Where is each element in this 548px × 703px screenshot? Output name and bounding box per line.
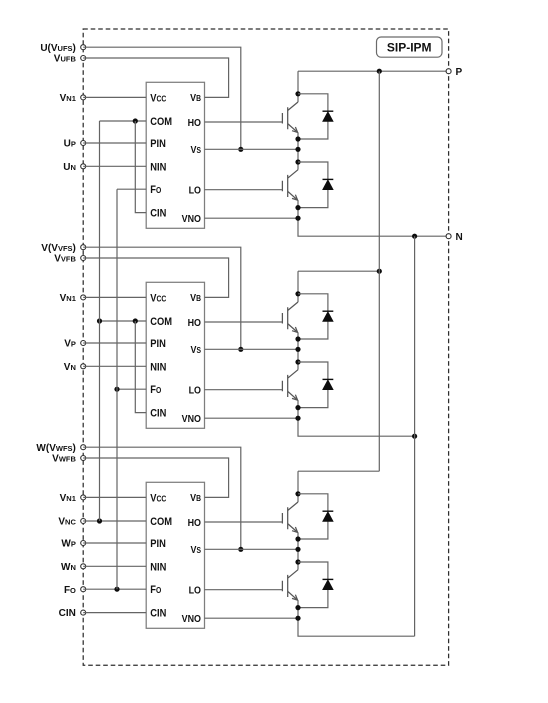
wire phase 2 collector rail to P bus	[298, 270, 379, 272]
svg-text:FO: FO	[150, 185, 161, 197]
junction UFS-VS	[238, 147, 243, 152]
junction P bus phase 2	[377, 269, 382, 274]
U2 pin label PIN	[150, 338, 166, 350]
wire P bus	[378, 71, 380, 471]
U3 pin label VB	[190, 493, 201, 505]
wire VWFB to VB pin	[83, 458, 228, 497]
svg-text:VS: VS	[191, 144, 202, 156]
label VN	[64, 362, 76, 373]
svg-text:FO: FO	[150, 585, 161, 597]
terminal V(VVFS)	[81, 245, 86, 250]
U1 pin label PIN	[150, 138, 166, 150]
U2 pin label FO	[150, 385, 161, 397]
svg-text:N: N	[456, 232, 463, 243]
svg-text:VUFB: VUFB	[54, 54, 77, 65]
terminal VWFB	[81, 456, 86, 461]
label WP	[61, 539, 75, 550]
wire CIN U1 to COM	[135, 121, 146, 213]
wire VN1 to VCC U1	[83, 96, 146, 98]
wire LO U1 to Q2 gate	[205, 189, 283, 191]
wire phase node column 1	[297, 132, 299, 169]
wire WP to PIN U3	[83, 542, 146, 544]
junction FO bus U2	[114, 387, 119, 392]
U3 pin label PIN	[150, 538, 166, 550]
U2 pin label CIN	[150, 408, 166, 420]
label UP	[64, 139, 76, 150]
terminal WN	[81, 564, 86, 569]
junction collector Q5 / D5	[295, 491, 300, 496]
wire P rail	[298, 70, 449, 72]
U2 pin label LO	[189, 385, 202, 397]
junction emitter Q2	[295, 205, 300, 210]
U1 pin label VB	[190, 93, 201, 105]
svg-text:VP: VP	[64, 339, 76, 350]
diode D2 (freewheeling)	[298, 162, 328, 208]
junction collector Q1 / D1	[295, 91, 300, 96]
wire CIN terminal to CIN U3	[83, 612, 146, 614]
wire CIN U2 to COM	[135, 321, 146, 413]
wire N rail	[298, 200, 449, 236]
U1 pin label COM	[150, 116, 172, 128]
label VP	[64, 339, 76, 350]
junction VNO node phase 3	[295, 616, 300, 621]
junction N bus phase 2	[412, 434, 417, 439]
wire collector column Q1	[297, 71, 299, 102]
wire VN to NIN U2	[83, 365, 146, 367]
junction N rail - N bus	[412, 234, 417, 239]
junction VNO node phase 1	[295, 216, 300, 221]
svg-text:VS: VS	[191, 544, 202, 556]
svg-text:VS: VS	[191, 344, 202, 356]
wire LO U2 to Q4 gate	[205, 389, 283, 391]
label VVFB	[54, 254, 76, 265]
wire VS U1 to phase node	[205, 148, 299, 150]
svg-text:VN1: VN1	[60, 493, 76, 504]
U3 pin label LO	[189, 585, 202, 597]
wire phase 3 collector rail to P bus	[298, 470, 379, 472]
junction collector Q3 / D3	[295, 291, 300, 296]
gate driver IC U3	[146, 482, 204, 628]
wire N bus	[414, 236, 416, 636]
junction VS node phase 2	[295, 347, 300, 352]
svg-text:WN: WN	[61, 562, 76, 573]
svg-text:PIN: PIN	[150, 538, 166, 550]
wire phase 2 emitter return to N bus	[298, 400, 415, 436]
wire FO bus	[116, 189, 118, 589]
junction emitter Q1	[295, 136, 300, 141]
U1 pin label VS	[191, 144, 202, 156]
svg-text:CIN: CIN	[59, 608, 76, 619]
label VUFB	[54, 54, 77, 65]
U2 pin label VS	[191, 344, 202, 356]
svg-text:UP: UP	[64, 139, 76, 150]
junction emitter Q4	[295, 405, 300, 410]
terminal UN	[81, 164, 86, 169]
U3 pin label NIN	[150, 562, 166, 574]
terminal UP	[81, 141, 86, 146]
U3 pin label FO	[150, 585, 161, 597]
terminal W(VWFS)	[81, 445, 86, 450]
label V(VVFS)	[41, 243, 76, 254]
junction COM bus VNC	[97, 518, 102, 523]
svg-text:HO: HO	[188, 317, 202, 329]
wire COM U1 to COM bus	[100, 120, 147, 122]
gate driver IC U1	[146, 82, 204, 228]
U3 pin label VCC	[150, 493, 167, 505]
transistor Q1 (IGBT)	[282, 102, 298, 132]
wire WN to NIN U3	[83, 565, 146, 567]
diode D5 (freewheeling)	[298, 494, 328, 539]
svg-text:VNO: VNO	[182, 613, 202, 625]
svg-text:NIN: NIN	[150, 162, 166, 174]
svg-text:VNO: VNO	[182, 213, 202, 225]
terminal VNC	[81, 519, 86, 524]
wire VUFB to VB pin	[83, 58, 228, 97]
diode D3 (freewheeling)	[298, 294, 328, 339]
wire collector column Q3	[297, 271, 299, 302]
diode D1 (freewheeling)	[298, 94, 328, 139]
wire VNC to COM U3	[83, 520, 146, 522]
svg-text:VCC: VCC	[150, 493, 167, 505]
svg-text:PIN: PIN	[150, 338, 166, 350]
svg-text:VN1: VN1	[60, 93, 76, 104]
svg-text:NIN: NIN	[150, 562, 166, 574]
U1 pin label VNO	[182, 213, 202, 225]
terminal FO	[81, 587, 86, 592]
wire phase node column 2	[297, 332, 299, 369]
svg-text:PIN: PIN	[150, 138, 166, 150]
terminal VUFB	[81, 56, 86, 61]
junction COM-CIN U1	[133, 118, 138, 123]
wire collector column Q5	[297, 471, 299, 502]
diode D4 (freewheeling)	[298, 362, 328, 408]
terminal CIN	[81, 610, 86, 615]
svg-text:FO: FO	[64, 585, 76, 596]
wire COM U2 to COM bus	[100, 320, 147, 322]
svg-text:COM: COM	[150, 116, 172, 128]
label VN1	[60, 93, 76, 104]
terminal N	[446, 234, 451, 239]
wire VNO U1 to emitter node	[205, 217, 299, 219]
wire UN to NIN U1	[83, 165, 146, 167]
U1 pin label LO	[189, 185, 202, 197]
svg-text:LO: LO	[189, 385, 202, 397]
svg-text:VB: VB	[190, 93, 201, 105]
svg-text:P: P	[456, 67, 463, 78]
svg-text:HO: HO	[188, 517, 202, 529]
svg-text:VVFB: VVFB	[54, 254, 76, 265]
label VNC	[58, 517, 76, 528]
label UN	[63, 162, 76, 173]
junction collector Q2 / D2	[295, 159, 300, 164]
junction VS node phase 1	[295, 147, 300, 152]
svg-text:FO: FO	[150, 385, 161, 397]
terminal VN	[81, 364, 86, 369]
U3 pin label VNO	[182, 613, 202, 625]
wire VNO U2 to emitter node	[205, 417, 299, 419]
svg-text:VN: VN	[64, 362, 76, 373]
U3 pin label HO	[188, 517, 202, 529]
svg-text:VNO: VNO	[182, 413, 202, 425]
label WN	[61, 562, 76, 573]
U2 pin label VCC	[150, 293, 167, 305]
junction COM-CIN U2	[133, 318, 138, 323]
wire FO U2 to FO bus	[117, 388, 146, 390]
U3 pin label VS	[191, 544, 202, 556]
junction FO bus terminal	[114, 587, 119, 592]
svg-text:HO: HO	[188, 117, 202, 129]
wire HO U3 to Q5 gate	[205, 521, 283, 523]
module outline (dashed boundary)	[83, 29, 448, 665]
svg-text:U(VUFS): U(VUFS)	[40, 43, 76, 54]
wire VN1 to VCC U2	[83, 296, 146, 298]
U2 pin label COM	[150, 316, 172, 328]
terminal VP	[81, 341, 86, 346]
label VWFB	[52, 454, 76, 465]
svg-text:VCC: VCC	[150, 293, 167, 305]
svg-text:LO: LO	[189, 585, 202, 597]
U3 pin label CIN	[150, 608, 166, 620]
U1 pin label NIN	[150, 162, 166, 174]
U1 pin label HO	[188, 117, 202, 129]
terminal WP	[81, 541, 86, 546]
junction emitter Q3	[295, 336, 300, 341]
wire HO U1 to Q1 gate	[205, 121, 283, 123]
svg-text:CIN: CIN	[150, 208, 166, 220]
svg-text:WP: WP	[61, 539, 75, 550]
diode D6 (freewheeling)	[298, 562, 328, 608]
svg-text:VWFB: VWFB	[52, 454, 76, 465]
U2 pin label HO	[188, 317, 202, 329]
wire W(VWFS) to VS node	[83, 447, 241, 549]
transistor Q3 (IGBT)	[282, 302, 298, 332]
terminal VVFB	[81, 256, 86, 261]
terminal U(VUFS)	[81, 45, 86, 50]
svg-text:LO: LO	[189, 185, 202, 197]
junction VS node phase 3	[295, 547, 300, 552]
wire VS U2 to phase node	[205, 348, 299, 350]
U1 pin label VCC	[150, 93, 167, 105]
svg-text:CIN: CIN	[150, 408, 166, 420]
svg-text:W(VWFS): W(VWFS)	[36, 443, 75, 454]
svg-text:VB: VB	[190, 293, 201, 305]
svg-text:VB: VB	[190, 493, 201, 505]
label VN1	[60, 493, 76, 504]
wire phase 3 emitter return to N bus	[298, 600, 415, 636]
wire HO U2 to Q3 gate	[205, 321, 283, 323]
transistor Q2 (IGBT)	[282, 170, 298, 200]
transistor Q5 (IGBT)	[282, 502, 298, 532]
U2 pin label VB	[190, 293, 201, 305]
label CIN	[59, 608, 76, 619]
svg-text:VNC: VNC	[58, 517, 76, 528]
U2 pin label VNO	[182, 413, 202, 425]
terminal VN1	[81, 295, 86, 300]
junction emitter Q5	[295, 536, 300, 541]
wire UP to PIN U1	[83, 142, 146, 144]
junction P rail - P bus	[377, 69, 382, 74]
wire phase node column 3	[297, 532, 299, 569]
wire COM bus	[99, 121, 101, 521]
svg-text:VCC: VCC	[150, 93, 167, 105]
junction collector Q4 / D4	[295, 359, 300, 364]
wire VNO U3 to emitter node	[205, 617, 299, 619]
wire U(VUFS) to VS node	[83, 47, 241, 149]
svg-text:SIP-IPM: SIP-IPM	[387, 41, 432, 55]
U2 pin label NIN	[150, 362, 166, 374]
wire FO terminal to FO U3	[83, 588, 146, 590]
junction collector Q6 / D6	[295, 559, 300, 564]
SIP-IPM label box	[377, 37, 443, 57]
wire VP to PIN U2	[83, 342, 146, 344]
junction COM bus U2	[97, 318, 102, 323]
terminal VN1	[81, 495, 86, 500]
wire LO U3 to Q6 gate	[205, 589, 283, 591]
wire FO U1 to FO bus	[117, 188, 146, 190]
transistor Q4 (IGBT)	[282, 370, 298, 400]
U1 pin label FO	[150, 185, 161, 197]
label U(VUFS)	[40, 43, 76, 54]
label W(VWFS)	[36, 443, 75, 454]
gate driver IC U2	[146, 282, 204, 428]
svg-text:CIN: CIN	[150, 608, 166, 620]
wire VS U3 to phase node	[205, 548, 299, 550]
terminal VN1	[81, 95, 86, 100]
svg-text:VN1: VN1	[60, 293, 76, 304]
wire V(VVFS) to VS node	[83, 247, 241, 349]
junction emitter Q6	[295, 605, 300, 610]
transistor Q6 (IGBT)	[282, 570, 298, 600]
wire VVFB to VB pin	[83, 258, 228, 297]
svg-text:V(VVFS): V(VVFS)	[41, 243, 76, 254]
U3 pin label COM	[150, 516, 172, 528]
junction WFS-VS	[238, 547, 243, 552]
svg-text:COM: COM	[150, 316, 172, 328]
label VN1	[60, 293, 76, 304]
svg-text:COM: COM	[150, 516, 172, 528]
terminal P	[446, 69, 451, 74]
svg-text:UN: UN	[63, 162, 76, 173]
U1 pin label CIN	[150, 208, 166, 220]
label FO	[64, 585, 76, 596]
junction VNO node phase 2	[295, 416, 300, 421]
wire VN1 to VCC U3	[83, 496, 146, 498]
svg-text:NIN: NIN	[150, 362, 166, 374]
junction VFS-VS	[238, 347, 243, 352]
